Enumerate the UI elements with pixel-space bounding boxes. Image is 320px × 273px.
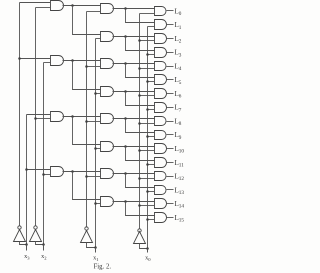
wire A1 top input from bus x=19.5 bbox=[20, 58, 51, 60]
junction on x1 at B5 input bbox=[94, 147, 97, 150]
wire x1 input stub below tap bbox=[95, 248, 97, 253]
junction on x1 at B7 input bbox=[94, 202, 97, 205]
AND gate G8 (output level, L8) bbox=[155, 117, 167, 126]
AND gate B4 (middle level, adds x1) bbox=[101, 114, 114, 124]
net x0 vertical bus bbox=[147, 27, 149, 253]
junction A2 output branch bbox=[71, 115, 74, 118]
AND gate B5 (middle level, adds x1) bbox=[101, 142, 114, 152]
wire A3 bottom input from bus x=43.5 bbox=[44, 174, 51, 176]
wire G14 bottom input from x0bar bbox=[140, 205, 155, 207]
junction on x1bar at B2 input bbox=[85, 65, 88, 68]
inverter for input x0 (NOT gate) bbox=[134, 232, 146, 244]
net x1bar vertical bus bbox=[86, 12, 88, 228]
junction on bus at A1 top input bbox=[18, 57, 21, 60]
wire B2 output to L4 input bbox=[113, 63, 155, 65]
wire output lead L11 bbox=[167, 162, 174, 164]
junction on x0 at G9 input bbox=[146, 135, 149, 138]
junction A1 output branch bbox=[71, 59, 74, 62]
wire x0 input stub below tap bbox=[147, 249, 149, 253]
AND gate A3 (left level, x3/x2 product) bbox=[51, 167, 64, 177]
wire B0 bottom input from x1bar bbox=[87, 11, 101, 13]
AND gate G2 (output level, L2) bbox=[155, 34, 167, 44]
inverter for input x2 (NOT gate) bbox=[30, 230, 42, 242]
wire B6 bottom input from x1bar bbox=[87, 176, 101, 178]
wire B0 output branch down to L1 bbox=[126, 9, 155, 23]
junction on x1bar at B6 input bbox=[85, 175, 88, 178]
wire B1 bottom input from x1 bbox=[96, 38, 101, 40]
wire G13 bottom input from x0 bbox=[148, 191, 155, 193]
wire x3 inverter input elbow bbox=[20, 242, 27, 245]
wire output lead L1 bbox=[167, 24, 174, 26]
wire B7 output branch down to L15 bbox=[126, 202, 155, 216]
AND gate G0 (output level, L0) bbox=[155, 7, 167, 16]
junction on x0 at G13 input bbox=[146, 190, 149, 193]
junction on x0 at G15 input bbox=[146, 218, 149, 221]
net x2 vertical bus bbox=[43, 63, 45, 251]
wire B2 output branch down to L5 bbox=[126, 64, 155, 78]
wire B1 output to L2 input bbox=[113, 36, 155, 38]
wire B6 output to L12 input bbox=[113, 173, 155, 175]
net x0bar vertical bus bbox=[139, 14, 141, 229]
wire output lead L9 bbox=[167, 134, 174, 136]
wire B2 bottom input from x1bar bbox=[87, 66, 101, 68]
svg-text:Fig. 2.: Fig. 2. bbox=[94, 264, 112, 271]
wire output lead L6 bbox=[167, 93, 174, 95]
wire B4 output branch down to L9 bbox=[126, 119, 155, 133]
junction on x0bar at G2 input bbox=[138, 39, 141, 42]
AND gate A0 (left level, x3/x2 product) bbox=[51, 1, 64, 11]
wire output lead L12 bbox=[167, 176, 174, 178]
AND gate A2 (left level, x3/x2 product) bbox=[51, 112, 64, 122]
wire A0 bottom input from bus x=35.5 bbox=[36, 7, 51, 9]
wire A3 top input from bus x=26.5 bbox=[27, 169, 51, 171]
junction on x0bar at G6 input bbox=[138, 94, 141, 97]
wire G10 bottom input from x0bar bbox=[140, 150, 155, 152]
junction B7 output branch bbox=[124, 200, 127, 203]
net x3 vertical bus bbox=[26, 115, 28, 251]
AND gate G4 (output level, L4) bbox=[155, 62, 167, 71]
junction x1 tap bbox=[94, 246, 97, 249]
wire G5 bottom input from x0 bbox=[148, 81, 155, 83]
junction on x0 at G11 input bbox=[146, 163, 149, 166]
junction B6 output branch bbox=[124, 172, 127, 175]
wire x0 inverter input elbow bbox=[140, 244, 148, 249]
junction on bus at A3 bottom input bbox=[42, 173, 45, 176]
AND gate G5 (output level, L5) bbox=[155, 75, 167, 85]
wire x2 input stub below tap bbox=[43, 245, 45, 251]
junction x2 tap bbox=[42, 243, 45, 246]
wire B5 bottom input from x1 bbox=[96, 148, 101, 150]
wire G15 bottom input from x0 bbox=[148, 219, 155, 221]
AND gate G6 (output level, L6) bbox=[155, 89, 167, 99]
AND gate B1 (middle level, adds x1) bbox=[101, 32, 114, 42]
junction B0 output branch bbox=[124, 7, 127, 10]
junction on x0 at G7 input bbox=[146, 108, 149, 111]
wire B6 output branch down to L13 bbox=[126, 174, 155, 188]
net x1 vertical bus bbox=[95, 39, 97, 253]
wire output lead L2 bbox=[167, 38, 174, 40]
wire B3 output to L6 input bbox=[113, 91, 155, 93]
wire B1 output branch down to L3 bbox=[126, 37, 155, 51]
AND gate G12 (output level, L12) bbox=[155, 172, 167, 181]
wire output lead L15 bbox=[167, 217, 174, 219]
wire G9 bottom input from x0 bbox=[148, 136, 155, 138]
AND gate B7 (middle level, adds x1) bbox=[101, 197, 114, 207]
junction on x0 at G3 input bbox=[146, 53, 149, 56]
junction x3 tap bbox=[25, 243, 28, 246]
wire output lead L13 bbox=[167, 189, 174, 191]
wire A0 top input from bus x=19.5 bbox=[20, 2, 51, 4]
AND gate G10 (output level, L10) bbox=[155, 144, 167, 154]
AND gate B2 (middle level, adds x1) bbox=[101, 59, 114, 69]
AND gate A1 (left level, x3/x2 product) bbox=[51, 56, 64, 66]
wire output lead L14 bbox=[167, 203, 174, 205]
wire B3 bottom input from x1 bbox=[96, 93, 101, 95]
AND gate B3 (middle level, adds x1) bbox=[101, 87, 114, 97]
AND gate G13 (output level, L13) bbox=[155, 186, 167, 195]
wire A2 bottom input from bus x=35.5 bbox=[36, 118, 51, 120]
inverter for input x1 (NOT gate) bbox=[81, 231, 93, 243]
wire output lead L3 bbox=[167, 52, 174, 54]
wire G1 bottom input from x0 bbox=[148, 26, 155, 28]
wire output lead L7 bbox=[167, 107, 174, 109]
wire B0 output to L0 input bbox=[113, 8, 155, 10]
wire B4 output to L8 input bbox=[113, 118, 155, 120]
junction on x0bar at G8 input bbox=[138, 122, 141, 125]
AND gate B6 (middle level, adds x1) bbox=[101, 169, 114, 179]
wire output lead L0 bbox=[167, 10, 174, 12]
junction B2 output branch bbox=[124, 62, 127, 65]
AND gate G14 (output level, L14) bbox=[155, 199, 167, 209]
junction x0 tap bbox=[146, 247, 149, 250]
junction A3 output branch bbox=[71, 170, 74, 173]
wire G2 bottom input from x0bar bbox=[140, 40, 155, 42]
wire output lead L4 bbox=[167, 66, 174, 68]
wire G12 bottom input from x0bar bbox=[140, 178, 155, 180]
junction B4 output branch bbox=[124, 117, 127, 120]
wire x3 input stub below tap bbox=[26, 245, 28, 251]
wire A3 output to B6 input bbox=[63, 171, 101, 173]
junction on bus at A3 top input bbox=[25, 168, 28, 171]
junction on x1 at B3 input bbox=[94, 92, 97, 95]
wire A3 output branch down to B7 bbox=[73, 172, 101, 200]
wire G8 bottom input from x0bar bbox=[140, 123, 155, 125]
wire output lead L5 bbox=[167, 79, 174, 81]
wire A2 top input from bus x=26.5 bbox=[27, 114, 51, 116]
wire G3 bottom input from x0 bbox=[148, 54, 155, 56]
junction on x0bar at G10 input bbox=[138, 149, 141, 152]
net x3bar vertical bus bbox=[19, 3, 21, 226]
AND gate G9 (output level, L9) bbox=[155, 131, 167, 140]
junction B5 output branch bbox=[124, 145, 127, 148]
junction B3 output branch bbox=[124, 90, 127, 93]
wire B7 output to L14 input bbox=[113, 201, 155, 203]
wire A0 output branch down to B1 bbox=[73, 6, 101, 35]
junction on x0bar at G4 input bbox=[138, 67, 141, 70]
wire B4 bottom input from x1bar bbox=[87, 121, 101, 123]
AND gate G7 (output level, L7) bbox=[155, 103, 167, 113]
wire G0 bottom input from x0bar bbox=[140, 13, 155, 15]
junction on x1bar at B4 input bbox=[85, 120, 88, 123]
junction A0 output branch bbox=[71, 4, 74, 7]
AND gate G15 (output level, L15) bbox=[155, 213, 167, 223]
net x2bar vertical bus bbox=[35, 8, 37, 226]
wire A1 output branch down to B3 bbox=[73, 61, 101, 90]
wire A1 output to B2 input bbox=[63, 60, 101, 62]
junction on x0bar at G14 input bbox=[138, 204, 141, 207]
wire A0 output to B0 input bbox=[63, 5, 101, 7]
wire A1 bottom input from bus x=43.5 bbox=[44, 62, 51, 64]
wire G6 bottom input from x0bar bbox=[140, 95, 155, 97]
wire A2 output branch down to B5 bbox=[73, 117, 101, 145]
wire G7 bottom input from x0 bbox=[148, 109, 155, 111]
wire B3 output branch down to L7 bbox=[126, 92, 155, 106]
inverter for input x3 (NOT gate) bbox=[14, 230, 26, 242]
AND gate B0 (middle level, adds x1) bbox=[101, 4, 114, 14]
wire B5 output branch down to L11 bbox=[126, 147, 155, 161]
wire G11 bottom input from x0 bbox=[148, 164, 155, 166]
wire A2 output to B4 input bbox=[63, 116, 101, 118]
AND gate G1 (output level, L1) bbox=[155, 20, 167, 30]
junction on x0bar at G12 input bbox=[138, 177, 141, 180]
wire output lead L8 bbox=[167, 121, 174, 123]
wire x1 inverter input elbow bbox=[87, 243, 96, 248]
AND gate G11 (output level, L11) bbox=[155, 158, 167, 168]
wire x2 inverter input elbow bbox=[36, 242, 44, 245]
wire output lead L10 bbox=[167, 148, 174, 150]
wire G4 bottom input from x0bar bbox=[140, 68, 155, 70]
junction B1 output branch bbox=[124, 35, 127, 38]
junction on x0 at G5 input bbox=[146, 80, 149, 83]
wire B5 output to L10 input bbox=[113, 146, 155, 148]
wire B7 bottom input from x1 bbox=[96, 203, 101, 205]
junction on bus at A2 bottom input bbox=[34, 117, 37, 120]
AND gate G3 (output level, L3) bbox=[155, 48, 167, 58]
